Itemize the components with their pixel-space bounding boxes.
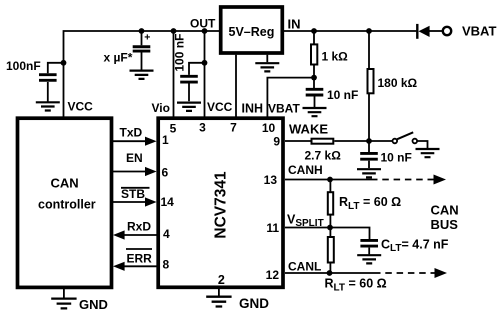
svg-text:10: 10 [262, 121, 276, 135]
svg-text:VCC: VCC [68, 100, 94, 114]
svg-text:180 kΩ: 180 kΩ [378, 76, 418, 90]
wire VBAT pin 10 [267, 78, 314, 117]
wire VSPLIT pin 11 [285, 228, 370, 240]
svg-text:INH: INH [242, 102, 264, 116]
svg-text:BUS: BUS [431, 217, 459, 232]
capacitor C6 CLT 4.7nF [360, 240, 378, 246]
wire TxD [113, 140, 146, 142]
wire RxD [124, 234, 157, 236]
wire C5 to ground [368, 161, 370, 168]
svg-text:10 nF: 10 nF [381, 151, 412, 165]
node junction VCC pin wire [202, 28, 208, 34]
svg-text:TxD: TxD [120, 126, 143, 140]
wire CANL dashed bus [374, 272, 435, 274]
wire CANH pin 13 [285, 179, 371, 181]
svg-text:3: 3 [199, 121, 206, 135]
svg-text:GND: GND [239, 296, 269, 311]
svg-text:10 nF: 10 nF [327, 88, 358, 102]
wire CANL pin 12 [285, 272, 374, 274]
node junction VBAT pin [311, 75, 317, 81]
ground switch [416, 149, 440, 157]
wire switch to ground [417, 141, 427, 148]
wire R3 to switch [334, 140, 392, 142]
svg-text:9: 9 [273, 135, 280, 149]
ground transceiver pin 2 [206, 289, 231, 307]
regulator 5V-Reg box [221, 7, 283, 53]
svg-text:EN: EN [126, 151, 143, 165]
resistor R5 RLT 60 [328, 237, 334, 263]
label ERR with overline [126, 249, 152, 266]
node junction CANL [327, 270, 333, 276]
svg-text:controller: controller [38, 198, 96, 212]
ground C5 [357, 169, 381, 177]
wire to R1 [313, 31, 315, 44]
resistor R1 1k [311, 44, 317, 64]
wire CANH dashed bus [371, 179, 434, 181]
node junction 100nF [61, 60, 67, 66]
wire 100nF Vio branch [189, 63, 205, 75]
svg-text:VBAT: VBAT [462, 24, 496, 39]
wire ERR [124, 265, 157, 267]
svg-text:1 kΩ: 1 kΩ [322, 50, 349, 64]
svg-text:1: 1 [162, 133, 169, 147]
svg-text:RLT = 60 Ω: RLT = 60 Ω [325, 277, 387, 294]
wire R2 to WAKE [368, 93, 370, 141]
arrow RxD [113, 230, 125, 239]
svg-text:OUT: OUT [190, 17, 216, 31]
wire C6 to ground [368, 248, 370, 255]
wire xuF cap [141, 31, 143, 45]
wire R1 to cap [313, 66, 315, 89]
wire VCC pin 3 [204, 31, 206, 117]
wire CANH to RLT1 [329, 180, 331, 193]
diode D1 [417, 24, 442, 39]
svg-text:8: 8 [163, 258, 170, 272]
capacitor C4 10 nF [306, 89, 324, 95]
svg-text:11: 11 [266, 221, 279, 235]
svg-text:VBAT: VBAT [268, 102, 300, 116]
node junction VSPLIT [327, 225, 333, 231]
wire C3 to ground [188, 83, 190, 101]
arrow ERR [113, 262, 125, 271]
CAN controller box [18, 118, 112, 287]
svg-text:CANL: CANL [288, 260, 321, 274]
svg-text:5V–Reg: 5V–Reg [229, 25, 275, 39]
node junction 1k [311, 28, 317, 34]
wire STB [113, 201, 146, 203]
capacitor C3 100 nF [180, 76, 198, 82]
wire VCC rail (OUT to CAN controller VCC) [64, 31, 220, 117]
svg-text:14: 14 [161, 195, 175, 209]
ground C2 [130, 71, 154, 79]
svg-text:RLT = 60 Ω: RLT = 60 Ω [339, 195, 401, 212]
capacitor C1 100nF [39, 75, 57, 81]
capacitor C5 10 nF (WAKE) [360, 141, 378, 159]
ground C1 [36, 102, 60, 110]
capacitor C2 x uF (polarized) [133, 47, 151, 51]
wire WAKE pin 9 [285, 140, 311, 142]
svg-text:IN: IN [288, 17, 301, 32]
svg-text:STB: STB [121, 187, 145, 201]
svg-text:x µF*: x µF* [104, 51, 133, 65]
arrow EN [145, 167, 157, 176]
svg-text:6: 6 [162, 166, 169, 180]
svg-text:7: 7 [230, 121, 237, 135]
svg-text:GND: GND [79, 297, 108, 312]
svg-text:12: 12 [266, 268, 280, 282]
svg-text:RxD: RxD [127, 220, 151, 234]
svg-text:VCC: VCC [207, 100, 233, 114]
svg-text:13: 13 [264, 173, 278, 187]
node junction 100nF Vio cap [202, 60, 208, 66]
svg-text:2.7 kΩ: 2.7 kΩ [305, 149, 342, 163]
arrow STB [145, 197, 157, 206]
arrow CANL bus [435, 268, 448, 278]
terminal VBAT circle [443, 27, 451, 35]
svg-text:CAN: CAN [431, 203, 459, 218]
resistor R3 2.7k [312, 139, 334, 144]
wire IN rail [284, 30, 416, 32]
CAN controller label [38, 176, 96, 212]
svg-text:CANH: CANH [288, 163, 323, 177]
wire RLT2 to CANL [329, 263, 331, 274]
node junction CANH [327, 177, 333, 183]
arrow TxD [145, 137, 157, 146]
svg-text:CLT= 4.7 nF: CLT= 4.7 nF [381, 238, 449, 255]
arrow CANH bus [434, 175, 447, 185]
node junction 180k [366, 28, 372, 34]
switch SW1 [393, 132, 418, 143]
svg-text:Vio: Vio [152, 101, 170, 115]
svg-text:100 nF: 100 nF [173, 34, 187, 72]
wire to R2 [368, 31, 370, 69]
svg-text:NCV7341: NCV7341 [213, 171, 230, 239]
wire C1 to ground [47, 82, 49, 102]
label CAN BUS [431, 203, 459, 233]
svg-text:100nF: 100nF [6, 59, 41, 73]
wire EN [113, 171, 146, 173]
svg-text:WAKE: WAKE [289, 122, 328, 137]
svg-text:VSPLIT: VSPLIT [287, 213, 324, 230]
ground C3 [177, 103, 201, 111]
svg-text:4: 4 [163, 227, 170, 241]
wire Vio pin 5 [173, 31, 175, 117]
ground regulator [255, 55, 279, 72]
wire 100nF branch [48, 63, 64, 73]
ground C4 [303, 108, 327, 116]
wire RLT1 to VSPLIT [329, 215, 331, 228]
node junction WAKE [366, 138, 372, 144]
node junction xuF cap [139, 28, 145, 34]
wire VSPLIT to RLT2 [329, 228, 331, 237]
svg-text:+: + [144, 31, 150, 43]
resistor R4 RLT 60 [328, 192, 333, 214]
wire C2 to ground [141, 52, 143, 69]
ground C6 [357, 255, 381, 263]
svg-text:ERR: ERR [127, 252, 153, 266]
transceiver U1 NCV7341 box [158, 118, 283, 287]
svg-text:2: 2 [218, 273, 225, 287]
wire INH pin 7 to regulator [235, 55, 237, 117]
svg-text:CAN: CAN [51, 176, 79, 191]
label STB with overline [121, 187, 150, 201]
node junction Vio [171, 28, 177, 34]
ground CAN controller [51, 289, 76, 308]
resistor R2 180k [368, 69, 374, 93]
svg-text:5: 5 [170, 122, 177, 136]
wire C4 to ground [314, 97, 316, 108]
